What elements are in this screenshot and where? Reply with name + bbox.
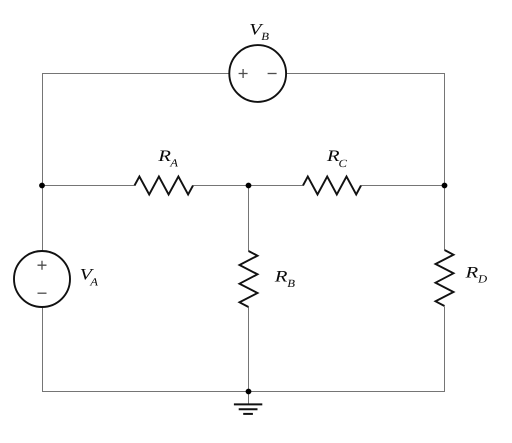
wire right upper bbox=[444, 73, 446, 186]
svg-text:D: D bbox=[477, 273, 487, 285]
wire RB to bottom node bbox=[248, 307, 250, 392]
label RB bbox=[273, 268, 295, 290]
wire top left segment bbox=[42, 73, 229, 75]
svg-text:R: R bbox=[157, 148, 171, 165]
wire RD to bottom bbox=[444, 307, 446, 393]
voltage source VA bbox=[14, 251, 70, 307]
wire left upper bbox=[42, 73, 44, 251]
resistor RD bbox=[436, 250, 454, 306]
VA plus sign bbox=[38, 261, 47, 270]
label VB bbox=[249, 22, 269, 43]
wire middle row right bbox=[361, 185, 444, 187]
svg-text:C: C bbox=[339, 158, 348, 170]
svg-text:A: A bbox=[169, 157, 178, 169]
node center bbox=[246, 183, 252, 189]
wire right node to RD bbox=[444, 186, 446, 251]
node left bbox=[39, 183, 45, 189]
resistor RB bbox=[240, 251, 258, 307]
wire middle row center-right bbox=[248, 185, 303, 187]
svg-text:B: B bbox=[287, 278, 295, 290]
wire bottom bbox=[42, 391, 444, 393]
node right bbox=[442, 183, 448, 189]
wire middle row center-left bbox=[193, 185, 248, 187]
wire top right segment bbox=[286, 73, 444, 75]
resistor RC bbox=[303, 177, 361, 195]
label RC bbox=[326, 148, 348, 170]
wire center node to RB bbox=[248, 186, 250, 252]
wire middle row left bbox=[42, 185, 135, 187]
resistor RA bbox=[135, 177, 194, 195]
svg-text:R: R bbox=[464, 265, 478, 282]
wire left lower bbox=[42, 307, 44, 392]
voltage source VB bbox=[229, 45, 286, 102]
ground bbox=[234, 392, 262, 414]
label VA bbox=[80, 267, 99, 289]
node bottom bbox=[246, 389, 252, 395]
VA minus sign bbox=[38, 292, 47, 294]
svg-text:B: B bbox=[261, 31, 269, 43]
label RD bbox=[464, 265, 487, 286]
VB minus sign bbox=[268, 73, 277, 75]
svg-text:A: A bbox=[89, 277, 98, 289]
label RA bbox=[157, 148, 178, 169]
VB plus sign bbox=[239, 69, 248, 78]
svg-text:R: R bbox=[273, 268, 287, 285]
